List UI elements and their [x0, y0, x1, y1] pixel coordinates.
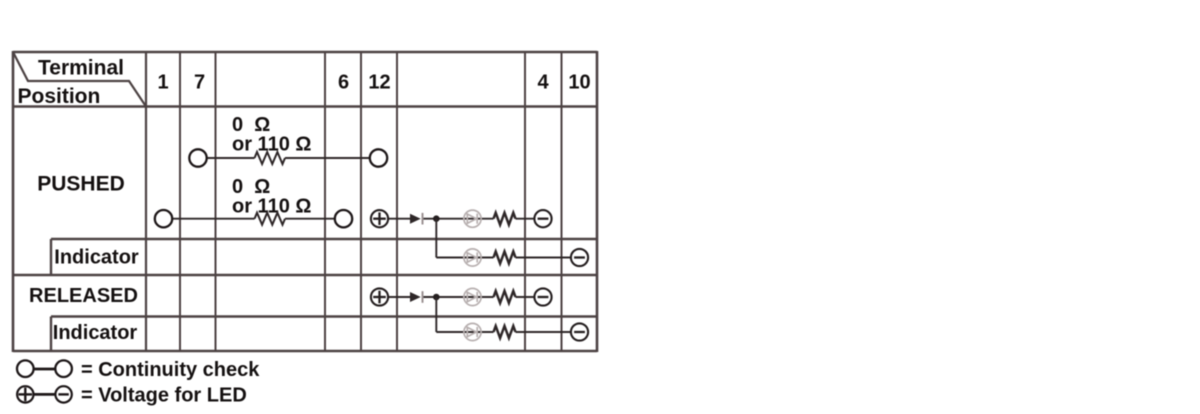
junction node (PUSHED): [433, 215, 440, 222]
resistor R1 (PUSHED LED): [494, 213, 516, 225]
LED L2 (PUSHED indicator): [464, 249, 481, 266]
svg-text:12: 12: [368, 72, 390, 94]
minus terminal 4 (RELEASED): [534, 288, 551, 305]
terminal circle 12 PUSHED: [370, 149, 387, 166]
wire 1 to 6: [173, 218, 335, 220]
table grid: [13, 51, 597, 352]
terminal circle 7 PUSHED: [189, 149, 206, 166]
minus terminal 4 (PUSHED): [534, 210, 551, 227]
svg-text:6: 6: [338, 72, 349, 94]
svg-text:Indicator: Indicator: [54, 247, 139, 269]
svg-text:7: 7: [194, 72, 205, 94]
svg-text:4: 4: [537, 72, 549, 94]
indicator branch wire (PUSHED): [436, 219, 571, 258]
svg-text:10: 10: [568, 72, 590, 94]
header diagonal divider: [14, 53, 147, 107]
legend wire: [35, 368, 56, 371]
wire 7 to 12: [207, 157, 370, 159]
svg-text:= Voltage for LED: = Voltage for LED: [81, 385, 247, 407]
svg-text:Position: Position: [18, 85, 101, 108]
legend wire 2: [35, 393, 56, 396]
svg-text:or 110 Ω: or 110 Ω: [232, 134, 311, 156]
svg-text:Terminal: Terminal: [38, 57, 124, 80]
diode D1 (PUSHED): [410, 214, 421, 224]
resistor (1-6): [255, 213, 286, 225]
plus terminal 12 (RELEASED): [371, 288, 388, 305]
plus terminal 12 (PUSHED): [371, 210, 388, 227]
diode D2 (RELEASED): [410, 292, 421, 302]
terminal circle 6 PUSHED: [335, 210, 352, 227]
legend continuity circle left: [17, 360, 34, 377]
junction node (RELEASED): [433, 294, 440, 301]
LED L1 (PUSHED): [464, 210, 481, 227]
svg-text:= Continuity check: = Continuity check: [81, 359, 260, 381]
resistor R2 (PUSHED indicator): [494, 252, 516, 264]
LED L3 (RELEASED): [464, 288, 481, 305]
diode D2 cathode bar: [422, 291, 424, 303]
legend plus terminal: [17, 386, 33, 402]
resistor R4 (RELEASED indicator): [494, 326, 516, 338]
svg-text:PUSHED: PUSHED: [37, 173, 125, 196]
RELEASED LED branch wire 12 to 4: [388, 296, 535, 298]
resistor (7-12): [255, 152, 286, 164]
PUSHED LED branch wire 12 to 4: [388, 218, 535, 220]
diode D1 cathode bar: [422, 213, 424, 225]
svg-text:or 110 Ω: or 110 Ω: [232, 196, 311, 218]
LED L4 (RELEASED indicator): [464, 323, 481, 340]
legend continuity circle right: [55, 360, 72, 377]
svg-text:RELEASED: RELEASED: [29, 285, 138, 307]
minus terminal 10 (RELEASED indicator): [571, 323, 588, 340]
resistor R3 (RELEASED LED): [494, 291, 516, 303]
svg-text:1: 1: [157, 72, 168, 94]
minus terminal 10 (PUSHED indicator): [571, 249, 588, 266]
svg-text:Indicator: Indicator: [53, 322, 138, 344]
terminal circle 1 PUSHED: [155, 210, 172, 227]
legend minus terminal: [55, 386, 71, 402]
indicator branch wire (RELEASED): [436, 297, 571, 332]
